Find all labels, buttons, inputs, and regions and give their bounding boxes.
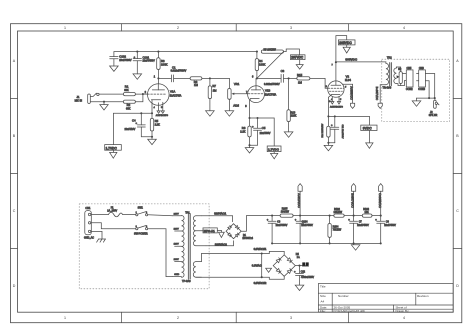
svg-text:22uF/16V: 22uF/16V (125, 128, 136, 131)
power flag heater gnd (266, 268, 272, 272)
svg-text:6: 6 (252, 76, 254, 79)
svg-text:CN1: CN1 (85, 207, 91, 210)
capacitor C101 (133, 52, 155, 74)
svg-text:J1: J1 (77, 95, 80, 99)
svg-text:305VDC: 305VDC (345, 58, 357, 62)
ground PSU rail (351, 245, 360, 250)
svg-text:Revision: Revision (417, 294, 429, 298)
svg-text:4: 4 (154, 107, 156, 109)
resistor R6 1M (190, 77, 202, 87)
capacitor C8 22uF/450V (375, 216, 396, 244)
junction R7 top (209, 77, 211, 79)
wire R15 to V2 grid (310, 78, 328, 88)
wire C1 to R6 (174, 77, 191, 79)
wire R1 R2 join to grid (135, 94, 147, 102)
svg-text:220K: 220K (291, 115, 297, 118)
capacitor C1 0.022uF/630V (171, 65, 187, 82)
svg-text:1N4007x4: 1N4007x4 (242, 238, 253, 240)
resistor R105 100/2W (272, 208, 300, 218)
svg-text:BCHTG: BCHTG (161, 115, 168, 117)
svg-text:TP-GA3: TP-GA3 (182, 280, 191, 283)
power flag 305VDC PSU (378, 184, 383, 216)
svg-text:9: 9 (345, 86, 347, 88)
junction C104 (299, 215, 301, 217)
wire V1B cathode node (248, 117, 274, 119)
svg-text:TR2: TR2 (387, 56, 392, 59)
resistor R8 2.2K cathode V1B (240, 118, 251, 145)
ground under R14 (324, 145, 333, 150)
probe 1.7VDC V1A (105, 113, 122, 158)
svg-text:1A_250V: 1A_250V (107, 210, 117, 213)
triode V1A 12AX7WA (148, 84, 182, 114)
capacitor C11 22uF/63V (328, 116, 343, 142)
svg-text:CON3: CON3 (418, 88, 425, 91)
fuse F1 1A 250V (91, 207, 123, 217)
connector J1 input jack (75, 93, 124, 103)
svg-text:B: B (13, 134, 16, 138)
svg-text:CN5: CN5 (407, 67, 412, 70)
svg-text:MPS-A1: MPS-A1 (204, 229, 215, 233)
svg-text:2: 2 (146, 212, 147, 214)
svg-text:0R: 0R (398, 69, 401, 71)
capacitor C104 22uF/450V (295, 216, 314, 244)
wire plate to C1 (158, 77, 171, 79)
probe 9VDC (361, 116, 377, 148)
junction C3 R13 (288, 77, 290, 79)
resistor R7 1M (208, 78, 217, 110)
ground under C102 (110, 66, 119, 71)
svg-text:22uF/450V: 22uF/450V (384, 224, 396, 227)
wire R8 gnd stem (249, 145, 251, 147)
svg-text:+: + (136, 122, 138, 125)
svg-text:68K: 68K (124, 89, 129, 92)
svg-text:A: A (13, 59, 16, 63)
svg-text:SPK 8R: SPK 8R (429, 114, 438, 117)
wire V2 cathode node (327, 115, 369, 117)
svg-text:1A: 1A (297, 256, 300, 259)
junction C8 (380, 215, 382, 217)
capacitor C7 22uF/450V (348, 216, 369, 244)
transformer HV secondary (193, 216, 206, 246)
resistor R14 220R/1W cathode V2 (322, 116, 330, 145)
ground under C101 (133, 74, 142, 79)
svg-text:B+307VDC: B+307VDC (375, 87, 379, 101)
svg-text:D:\SCH\Protel\GA5.ddb: D:\SCH\Protel\GA5.ddb (334, 309, 366, 313)
node V1B plate (256, 77, 258, 79)
wire ground rail PSU (271, 242, 382, 244)
svg-text:C+305VDC: C+305VDC (378, 193, 382, 208)
bridge rectifier D5 heater (273, 254, 300, 276)
svg-text:A4: A4 (321, 299, 325, 303)
wire B+ rail (114, 51, 257, 53)
svg-text:1: 1 (154, 76, 156, 79)
wire R5 gnd stem (151, 137, 153, 139)
box MPS-A1 center tap (203, 228, 224, 238)
svg-text:10K/2W: 10K/2W (334, 211, 343, 214)
wire diagonal plate to rail (257, 52, 284, 79)
zone tick right 3 (453, 248, 462, 250)
resistor R13 220K (287, 78, 297, 131)
svg-text:10uF/400V: 10uF/400V (119, 59, 132, 62)
ground under J1 (100, 101, 108, 110)
svg-text:70K/2W: 70K/2W (333, 229, 342, 232)
svg-text:1M: 1M (194, 83, 199, 87)
svg-text:TP1: TP1 (185, 212, 190, 215)
zone tick bottom 1 (121, 312, 123, 323)
svg-text:A+310VDC: A+310VDC (297, 193, 301, 208)
svg-text:2: 2 (177, 26, 179, 30)
switch SW1 SW-POWER (123, 207, 148, 236)
svg-text:R5 10K/2W: R5 10K/2W (264, 49, 277, 52)
svg-text:1: 1 (64, 26, 66, 30)
ground under R8 (245, 148, 254, 153)
bridge rectifier D1 1N4007x4 (226, 224, 254, 241)
svg-text:207VDC: 207VDC (291, 56, 304, 60)
svg-text:100V: 100V (174, 259, 180, 261)
svg-text:C: C (456, 209, 459, 213)
wire AC neutral (91, 223, 136, 229)
zone tick top 1 (121, 24, 123, 31)
resistor R15 1M (289, 73, 310, 85)
wire switch to transformer GND tap (148, 229, 173, 277)
power flag screen 305VDC (350, 84, 355, 108)
svg-text:5: 5 (340, 99, 342, 101)
junction R3 rail (157, 51, 159, 53)
svg-text:305VDC: 305VDC (339, 41, 352, 45)
svg-text:6.3VAC#2: 6.3VAC#2 (254, 281, 267, 285)
capacitor C102 (110, 52, 132, 66)
node V1A plate (157, 77, 159, 79)
zone tick top 3 (347, 24, 349, 31)
svg-text:68K: 68K (126, 107, 131, 110)
svg-text:6.3VAC: 6.3VAC (252, 264, 262, 268)
probe 1.7VDC V1B (267, 118, 281, 159)
svg-text:SW-POWER: SW-POWER (134, 233, 148, 236)
capacitor C3 0.022uF/400V (257, 69, 289, 86)
svg-text:GND_AC: GND_AC (84, 237, 94, 240)
svg-text:7: 7 (332, 65, 334, 67)
svg-text:CON2: CON2 (406, 88, 413, 91)
svg-text:100K: 100K (259, 63, 266, 67)
svg-text:R15: R15 (297, 73, 303, 77)
wire rail to probe 207VDC (284, 49, 300, 55)
svg-text:1.7VDC: 1.7VDC (106, 146, 118, 150)
svg-text:22uF/450V: 22uF/450V (301, 224, 313, 227)
sheet inner border (18, 31, 454, 312)
zone tick left 3 (11, 248, 18, 250)
svg-text:C: C (13, 209, 16, 213)
svg-text:C11 22uF/63V: C11 22uF/63V (341, 125, 343, 139)
resistor R5 2.2K cathode V1A (150, 113, 160, 137)
ground under C12 (295, 285, 304, 290)
zone tick right 2 (453, 173, 462, 175)
junction C101 rail (136, 51, 138, 53)
junction grid join (142, 93, 144, 95)
junction cathode bottom V1B (248, 144, 250, 146)
connector CON3 (417, 67, 426, 91)
earth ground AC (84, 231, 105, 242)
svg-text:File:: File: (320, 309, 326, 313)
svg-text:12AX7WA: 12AX7WA (265, 93, 277, 96)
power flag 307VDC (375, 85, 382, 109)
svg-text:R8: R8 (242, 126, 246, 130)
svg-text:22uF/450V: 22uF/450V (143, 60, 156, 63)
svg-text:D1: D1 (243, 235, 247, 237)
capacitor C4 22uF/16V (125, 113, 153, 137)
svg-text:C12: C12 (301, 270, 306, 273)
resistor R103 10K (362, 208, 380, 217)
svg-text:1M: 1M (298, 81, 303, 85)
svg-text:10K: 10K (365, 211, 370, 214)
connector CON2 (406, 67, 413, 91)
svg-text:1.7VDC: 1.7VDC (268, 148, 280, 152)
svg-text:R5: R5 (155, 119, 159, 123)
svg-text:GND: GND (174, 274, 179, 276)
wire heater reference (261, 254, 263, 278)
wire plate to output transformer (336, 61, 386, 63)
svg-text:Number: Number (338, 294, 349, 298)
svg-text:R7: R7 (212, 84, 216, 88)
wire HV top to bridge (202, 216, 233, 222)
capacitor C12 4700uF/35V (294, 266, 314, 286)
svg-text:Size: Size (320, 294, 326, 298)
resistor R102 10K/2W (334, 208, 363, 217)
svg-text:6.3VAC#1: 6.3VAC#1 (254, 247, 267, 251)
ground under R5 (148, 139, 157, 144)
svg-text:3: 3 (136, 226, 137, 228)
wire heater bottom (196, 276, 284, 279)
svg-text:V1B: V1B (265, 88, 270, 92)
svg-text:MIC IN: MIC IN (75, 99, 83, 102)
svg-text:R1: R1 (125, 85, 129, 89)
probe 305VDC (336, 36, 355, 62)
power supply dashed box (79, 204, 209, 289)
svg-text:12AX7WA: 12AX7WA (170, 95, 182, 98)
svg-text:1: 1 (64, 316, 66, 320)
svg-text:9VDC: 9VDC (363, 127, 372, 131)
svg-text:22uF/63V: 22uF/63V (260, 132, 271, 135)
capacitor C5 22uF/63V (250, 118, 271, 145)
svg-text:A1M: A1M (233, 104, 239, 108)
wire heater top (202, 251, 285, 255)
svg-text:4: 4 (403, 316, 405, 320)
connector CN1 AC inlet (85, 207, 92, 235)
transformer TP-GA3 power (173, 212, 192, 283)
svg-text:0.022uF/400V: 0.022uF/400V (264, 83, 280, 86)
svg-text:B: B (456, 134, 459, 138)
svg-text:Drawn By:: Drawn By: (396, 309, 410, 313)
junction C7 (353, 215, 355, 217)
svg-text:VR1: VR1 (234, 82, 240, 86)
svg-text:B+307VDC: B+307VDC (351, 193, 355, 208)
svg-text:CN6: CN6 (419, 67, 424, 70)
probe 207VDC (291, 55, 306, 69)
zone tick bottom 3 (347, 312, 349, 323)
svg-text:SW1: SW1 (138, 207, 144, 210)
svg-text:TR-GA3: TR-GA3 (383, 87, 392, 90)
svg-text:BCHTG: BCHTG (336, 106, 343, 108)
resistor R17 secondary (396, 67, 406, 86)
resistor R2 68K (123, 100, 135, 110)
svg-text:22uF/450V: 22uF/450V (357, 224, 369, 227)
wire switch to transformer 240V tap (148, 215, 173, 216)
wire CON3 to speaker jack (417, 74, 436, 100)
svg-text:R14 220R/1W: R14 220R/1W (322, 123, 324, 138)
svg-text:100K: 100K (161, 63, 168, 67)
resistor R5 10K rail (261, 49, 283, 54)
ground under R13 (284, 132, 293, 137)
transformer TR-GA3 output (380, 62, 396, 90)
wire HV bottom to bridge (206, 241, 234, 246)
svg-text:2.2K: 2.2K (240, 130, 245, 133)
wire bridge to B+ (241, 216, 272, 232)
svg-text:D: D (13, 284, 16, 288)
svg-text:3: 3 (290, 26, 292, 30)
zone tick left 1 (11, 98, 18, 100)
junction cathode bottom V1A (151, 136, 153, 138)
zone tick left 2 (11, 173, 18, 175)
resistor R1 68K (123, 85, 135, 96)
svg-text:4: 4 (331, 99, 333, 101)
wire B+ rail PSU (300, 215, 334, 217)
svg-text:+: + (331, 124, 333, 127)
svg-text:120V: 120V (174, 244, 180, 246)
svg-text:Title: Title (320, 284, 326, 288)
svg-text:4: 4 (146, 226, 147, 228)
svg-text:A+305VDC: A+305VDC (350, 86, 354, 100)
heater pin flags V1A ACHTG (156, 102, 169, 117)
svg-text:C5: C5 (262, 126, 266, 130)
pentode V2 EL84 (326, 62, 353, 116)
svg-text:C3: C3 (281, 69, 285, 73)
zone tick right 1 (453, 98, 462, 100)
svg-text:22uF/450V: 22uF/450V (276, 224, 288, 227)
svg-text:3: 3 (290, 316, 292, 320)
node V2 plate (335, 61, 337, 63)
svg-text:2.2K: 2.2K (155, 124, 160, 127)
svg-text:A: A (456, 59, 459, 63)
title block (318, 284, 453, 313)
svg-text:EL84: EL84 (345, 79, 351, 82)
svg-text:D5: D5 (296, 254, 300, 256)
svg-text:1: 1 (136, 212, 137, 214)
ground under VR1 (225, 111, 234, 116)
transformer heater secondary (193, 254, 201, 278)
power flag 310VDC (297, 184, 302, 216)
svg-text:V1A: V1A (170, 90, 175, 94)
wire bridge heater out (295, 265, 308, 267)
svg-text:0.022uF/630V: 0.022uF/630V (171, 70, 187, 73)
svg-text:320VAC1: 320VAC1 (214, 212, 226, 216)
svg-text:4700uF/35V: 4700uF/35V (301, 276, 314, 279)
op V1B triode 12AX7WA (245, 76, 276, 118)
svg-text:240V: 240V (174, 213, 180, 215)
svg-text:100/2W: 100/2W (281, 211, 290, 214)
zone tick top 2 (235, 24, 237, 31)
junction C6 (271, 215, 273, 217)
svg-text:1M: 1M (213, 89, 218, 93)
connector J2 speaker jack (429, 98, 439, 117)
wire R6 to VR1 (202, 77, 230, 79)
resistor R104 70K/2W bleeder (328, 215, 342, 244)
heater pin flags V2 ACHTG (330, 96, 343, 108)
svg-text:D: D (456, 284, 459, 288)
capacitor C6 22uF/450V (267, 216, 288, 244)
output transformer TR2 dashed box (382, 59, 450, 121)
potentiometer VR1 A1M (228, 78, 248, 110)
junction V2 cathode bottom (327, 142, 329, 144)
resistor R3 100K (157, 52, 168, 84)
resistor R4 100K plate V1B (255, 51, 265, 79)
svg-text:2: 2 (145, 91, 147, 94)
svg-text:8: 8 (245, 105, 247, 108)
power flag 307VDC PSU (351, 184, 356, 216)
svg-text:4: 4 (403, 26, 405, 30)
svg-text:2: 2 (177, 316, 179, 320)
ground under R7 (206, 111, 215, 116)
ground speaker return (412, 98, 421, 106)
svg-text:220V: 220V (174, 229, 180, 231)
zone tick bottom 2 (235, 312, 237, 323)
net label DC6.3V (302, 262, 308, 266)
wire V1A cathode (114, 112, 154, 114)
